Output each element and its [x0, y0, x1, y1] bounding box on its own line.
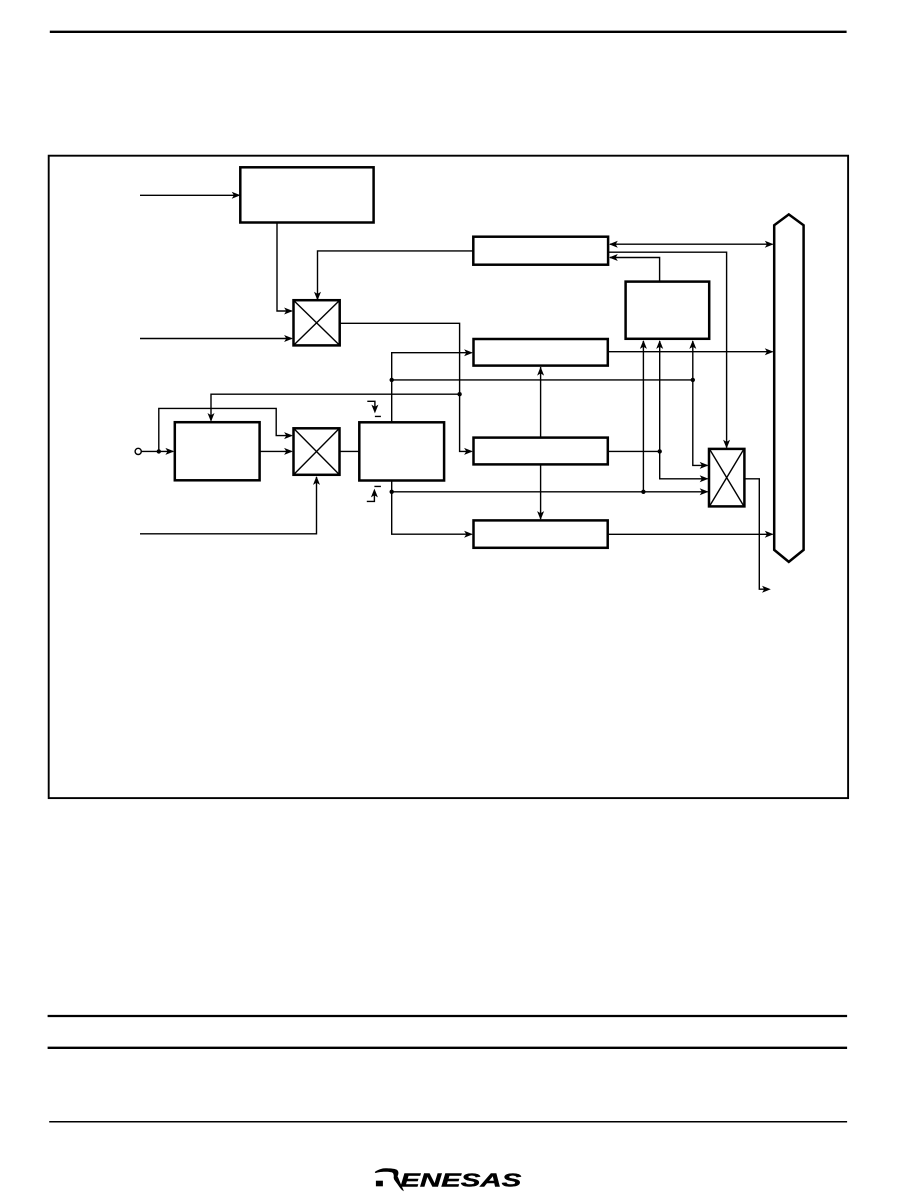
- svg-text:ENESAS: ENESAS: [400, 1169, 522, 1190]
